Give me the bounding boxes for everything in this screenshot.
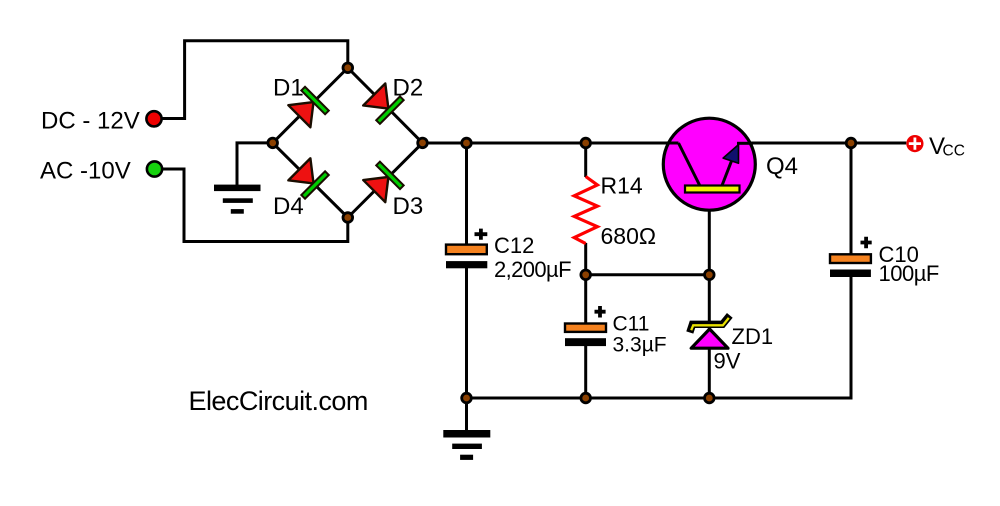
- transistor Q4: [663, 118, 755, 210]
- resistor R14: [574, 177, 597, 244]
- svg-text:C12: C12: [494, 233, 534, 258]
- node bridge bottom: [343, 213, 353, 223]
- svg-text:D1: D1: [273, 75, 304, 102]
- zener ZD1 cathode bar: [690, 315, 730, 332]
- wire DC input to bridge top: [160, 41, 348, 119]
- node bridge left: [268, 138, 278, 148]
- svg-text:2,200µF: 2,200µF: [494, 257, 571, 282]
- svg-text:CC: CC: [943, 143, 965, 160]
- diode D4: [287, 157, 328, 198]
- wire bottom rail: [467, 277, 852, 398]
- node bottom rail ground junction: [462, 393, 472, 403]
- diode D2: [362, 83, 403, 124]
- node bridge right: [418, 138, 428, 148]
- svg-text:D4: D4: [273, 193, 304, 220]
- wire bridge left-bottom edge: [273, 143, 348, 218]
- wire R14 bottom lead: [584, 243, 587, 275]
- ground (left, bridge negative): [214, 185, 261, 214]
- zener diode ZD1: [691, 329, 728, 348]
- wire C11 bottom lead: [584, 346, 587, 399]
- wire Q4 emitter down through ZD1 to bottom rail: [708, 193, 711, 399]
- wire bridge bottom-right edge: [348, 143, 423, 218]
- diode D3: [362, 162, 403, 203]
- terminal Vcc output: [906, 135, 923, 152]
- terminal AC input: [147, 161, 162, 176]
- node R14 bottom junction: [581, 270, 591, 280]
- svg-text:3.3µF: 3.3µF: [613, 334, 667, 357]
- node C10 top junction: [846, 138, 856, 148]
- capacitor C10: [830, 237, 872, 277]
- wire AC input to bridge bottom: [160, 169, 348, 242]
- ground (bottom rail): [443, 430, 490, 460]
- node Q4 base junction: [705, 270, 715, 280]
- node bottom rail ZD1 junction: [705, 393, 715, 403]
- diode D1: [287, 87, 328, 128]
- svg-text:DC - 12V: DC - 12V: [41, 108, 140, 135]
- wire bottom ground stub: [465, 398, 468, 431]
- svg-text:C11: C11: [613, 313, 650, 336]
- node bottom rail C11 junction: [581, 393, 591, 403]
- wire C12 bottom lead: [465, 268, 468, 398]
- svg-text:ZD1: ZD1: [732, 324, 774, 349]
- svg-text:100µF: 100µF: [879, 261, 939, 286]
- svg-text:AC -10V: AC -10V: [40, 158, 131, 185]
- wire base row junction to Q4 base: [586, 273, 710, 276]
- wire top rail left of Q4: [423, 142, 679, 145]
- wire top rail right of Q4: [737, 142, 906, 145]
- wire R14 top lead: [584, 143, 587, 177]
- wire bridge top-right edge: [348, 68, 423, 143]
- node R14 top junction: [581, 138, 591, 148]
- svg-text:ElecCircuit.com: ElecCircuit.com: [189, 386, 368, 416]
- svg-text:680Ω: 680Ω: [601, 223, 657, 249]
- wire C12 top lead: [465, 143, 468, 245]
- svg-text:Q4: Q4: [766, 153, 798, 180]
- svg-text:R14: R14: [601, 173, 643, 199]
- wire bridge left node to ground: [237, 143, 273, 186]
- wire C11 top lead: [584, 275, 587, 324]
- capacitor C11: [565, 306, 606, 346]
- svg-text:D2: D2: [393, 75, 424, 102]
- node C12 top junction: [462, 138, 472, 148]
- label Vcc: [929, 133, 965, 160]
- terminal DC input: [146, 111, 161, 126]
- node bridge top: [343, 63, 353, 73]
- wire C10 top lead: [850, 143, 853, 255]
- svg-text:D3: D3: [393, 193, 424, 220]
- capacitor C12: [446, 229, 487, 269]
- svg-text:9V: 9V: [714, 349, 741, 374]
- wire bridge left-top edge: [273, 68, 348, 143]
